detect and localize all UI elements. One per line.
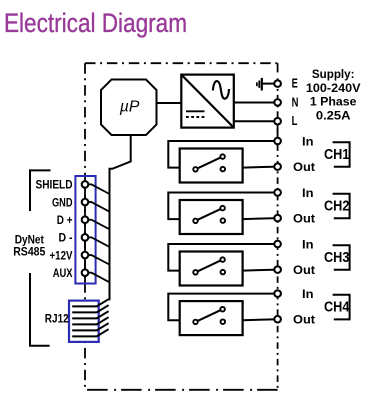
svg-text:1 Phase: 1 Phase [310, 95, 357, 109]
svg-text:RS485: RS485 [13, 245, 45, 259]
svg-text:+12V: +12V [50, 248, 73, 262]
svg-text:In: In [302, 287, 314, 301]
svg-text:Out: Out [293, 313, 315, 327]
svg-text:In: In [302, 237, 314, 251]
svg-text:D -: D - [59, 231, 73, 245]
svg-text:N: N [292, 95, 299, 109]
svg-text:CH1: CH1 [324, 147, 349, 163]
svg-text:Out: Out [293, 212, 315, 226]
svg-text:SHIELD: SHIELD [36, 178, 73, 192]
svg-text:GND: GND [52, 195, 73, 209]
svg-text:RJ12: RJ12 [45, 312, 69, 326]
svg-text:AUX: AUX [53, 266, 73, 280]
svg-text:Out: Out [293, 263, 315, 277]
svg-text:In: In [302, 134, 314, 148]
svg-text:Electrical Diagram: Electrical Diagram [4, 8, 187, 38]
svg-text:E: E [292, 77, 298, 91]
svg-text:CH2: CH2 [324, 198, 349, 214]
svg-text:CH3: CH3 [324, 250, 349, 266]
svg-text:100-240V: 100-240V [306, 81, 361, 95]
svg-text:CH4: CH4 [324, 299, 349, 315]
svg-text:Out: Out [293, 160, 315, 174]
svg-text:L: L [292, 114, 298, 128]
svg-text:µP: µP [120, 99, 140, 116]
svg-text:Supply:: Supply: [312, 67, 355, 81]
svg-text:0.25A: 0.25A [316, 109, 351, 123]
svg-text:D +: D + [57, 213, 73, 227]
svg-text:In: In [302, 186, 314, 200]
